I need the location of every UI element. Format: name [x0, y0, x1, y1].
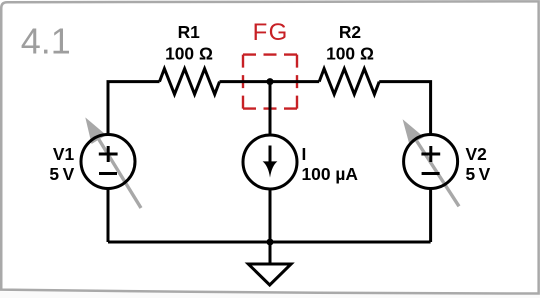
svg-text:R1: R1 — [178, 22, 201, 42]
svg-text:100 µA: 100 µA — [302, 164, 359, 184]
svg-text:I: I — [302, 144, 307, 164]
wire middle vertical lower — [269, 189, 272, 243]
wire bottom segment — [108, 241, 431, 244]
voltage source V2 arrow — [403, 119, 459, 206]
svg-text:5 V: 5 V — [49, 164, 74, 184]
svg-text:V2: V2 — [466, 144, 487, 164]
wire top-middle segment — [220, 80, 320, 83]
svg-text:100 Ω: 100 Ω — [165, 44, 213, 64]
svg-text:V1: V1 — [53, 144, 75, 164]
resistor R2 — [319, 69, 379, 95]
wire ground stub — [269, 242, 272, 264]
node FG dashed box — [243, 55, 297, 109]
svg-text:4.1: 4.1 — [21, 21, 71, 62]
current source I — [243, 135, 297, 189]
voltage source V2 — [404, 135, 458, 189]
voltage source V1 — [81, 135, 135, 189]
svg-text:5 V: 5 V — [466, 164, 491, 184]
wire right vertical lower — [429, 189, 432, 243]
node FG junction dot — [267, 78, 274, 85]
wire left vertical lower — [107, 189, 110, 243]
wire middle vertical upper — [269, 82, 272, 136]
voltage source V1 arrow — [85, 117, 141, 208]
resistor R1 — [160, 69, 220, 95]
wire top-left segment — [108, 82, 160, 135]
ground — [248, 264, 291, 285]
node ground junction dot — [267, 239, 274, 246]
svg-text:100 Ω: 100 Ω — [326, 44, 374, 64]
svg-text:FG: FG — [253, 19, 289, 46]
wire top-right segment — [379, 82, 430, 135]
svg-text:R2: R2 — [339, 22, 361, 42]
